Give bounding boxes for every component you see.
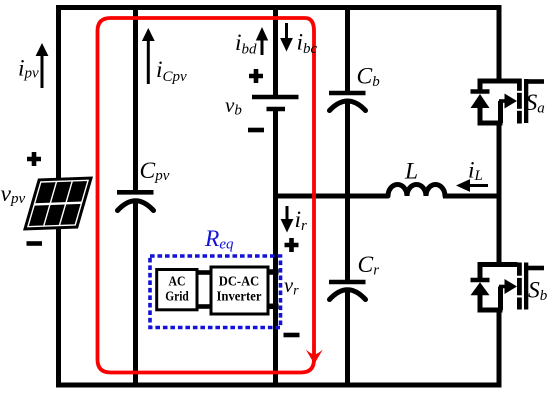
arrow i_bc <box>280 23 293 52</box>
svg-text:AC: AC <box>169 274 186 289</box>
Sb source vertical <box>498 287 503 311</box>
Sb channel bar <box>517 263 522 276</box>
wire battery branch <box>273 5 278 97</box>
svg-text:L: L <box>404 159 418 185</box>
capacitor Cr <box>329 282 366 300</box>
diode Db bar <box>471 278 490 283</box>
wire inverter stub lower <box>267 304 279 310</box>
wire right branch Sa to Sb <box>497 123 502 265</box>
PV plus sign <box>27 152 41 166</box>
arrow i_bd <box>256 27 268 55</box>
wire left branch upper <box>56 5 61 180</box>
wire mid bus left <box>273 194 388 199</box>
wire right branch drain Sa <box>497 5 502 81</box>
transistor Q Sb <box>471 262 545 313</box>
wire mid bus right <box>443 194 502 199</box>
wire Cpv branch lower <box>133 199 138 387</box>
diode Da bar <box>471 89 490 94</box>
DC-AC Inverter box <box>211 267 268 314</box>
inductor L <box>388 185 445 197</box>
transistor Q Sa <box>471 79 545 126</box>
wire box link upper <box>196 270 212 275</box>
capacitor Cpv <box>117 192 154 210</box>
battery minus sign <box>248 128 264 133</box>
PV panel <box>23 177 93 231</box>
Sa source vertical <box>498 101 503 123</box>
arrow i_Cpv <box>142 28 155 84</box>
wire Cr branch <box>345 194 350 283</box>
wire top bus <box>56 5 502 10</box>
wire Cpv branch upper <box>133 5 138 192</box>
PV minus sign <box>27 241 43 246</box>
wire box link lower <box>196 304 212 309</box>
wire Cb branch <box>345 5 350 93</box>
red loop <box>98 18 315 373</box>
wire left branch lower <box>56 226 61 387</box>
diode Db branch <box>478 262 483 280</box>
battery plus sign <box>249 69 263 83</box>
blue dashed box R_eq <box>150 256 281 328</box>
arrow i_L <box>456 179 488 192</box>
svg-text:Inverter: Inverter <box>217 289 262 304</box>
Sb arrow <box>505 279 518 294</box>
Sa channel bar <box>517 79 522 91</box>
diode Da triangle <box>471 94 490 108</box>
diode Da branch <box>478 79 483 92</box>
capacitor Cb <box>329 93 366 111</box>
svg-text:DC-AC: DC-AC <box>219 274 260 289</box>
Sb gate bar <box>524 263 528 310</box>
AC Grid box <box>157 270 197 310</box>
arrow i_pv <box>36 43 49 88</box>
Sa top horizontal <box>479 79 518 84</box>
wire Cb to mid <box>345 100 350 199</box>
Sb bottom horizontal <box>479 308 503 313</box>
arrow i_r <box>281 206 294 233</box>
wire bottom bus <box>56 383 502 388</box>
vr minus sign <box>284 333 300 338</box>
Sa bottom horizontal <box>479 121 503 126</box>
wire inverter stub upper <box>267 269 279 275</box>
Sa arrow <box>505 94 518 109</box>
wire Cr to bottom <box>345 289 350 387</box>
wire right branch Sb to bottom <box>497 310 502 387</box>
Sa gate lead <box>528 79 544 84</box>
diode Db triangle <box>471 282 490 295</box>
red loop arrowhead <box>306 350 323 365</box>
Sb gate lead <box>528 266 544 271</box>
wire battery to mid <box>273 109 278 387</box>
Sb top horizontal <box>479 262 518 267</box>
vr plus sign <box>285 238 299 252</box>
battery v_b <box>252 97 299 109</box>
svg-text:Grid: Grid <box>165 288 189 303</box>
Sa gate bar <box>524 79 528 123</box>
